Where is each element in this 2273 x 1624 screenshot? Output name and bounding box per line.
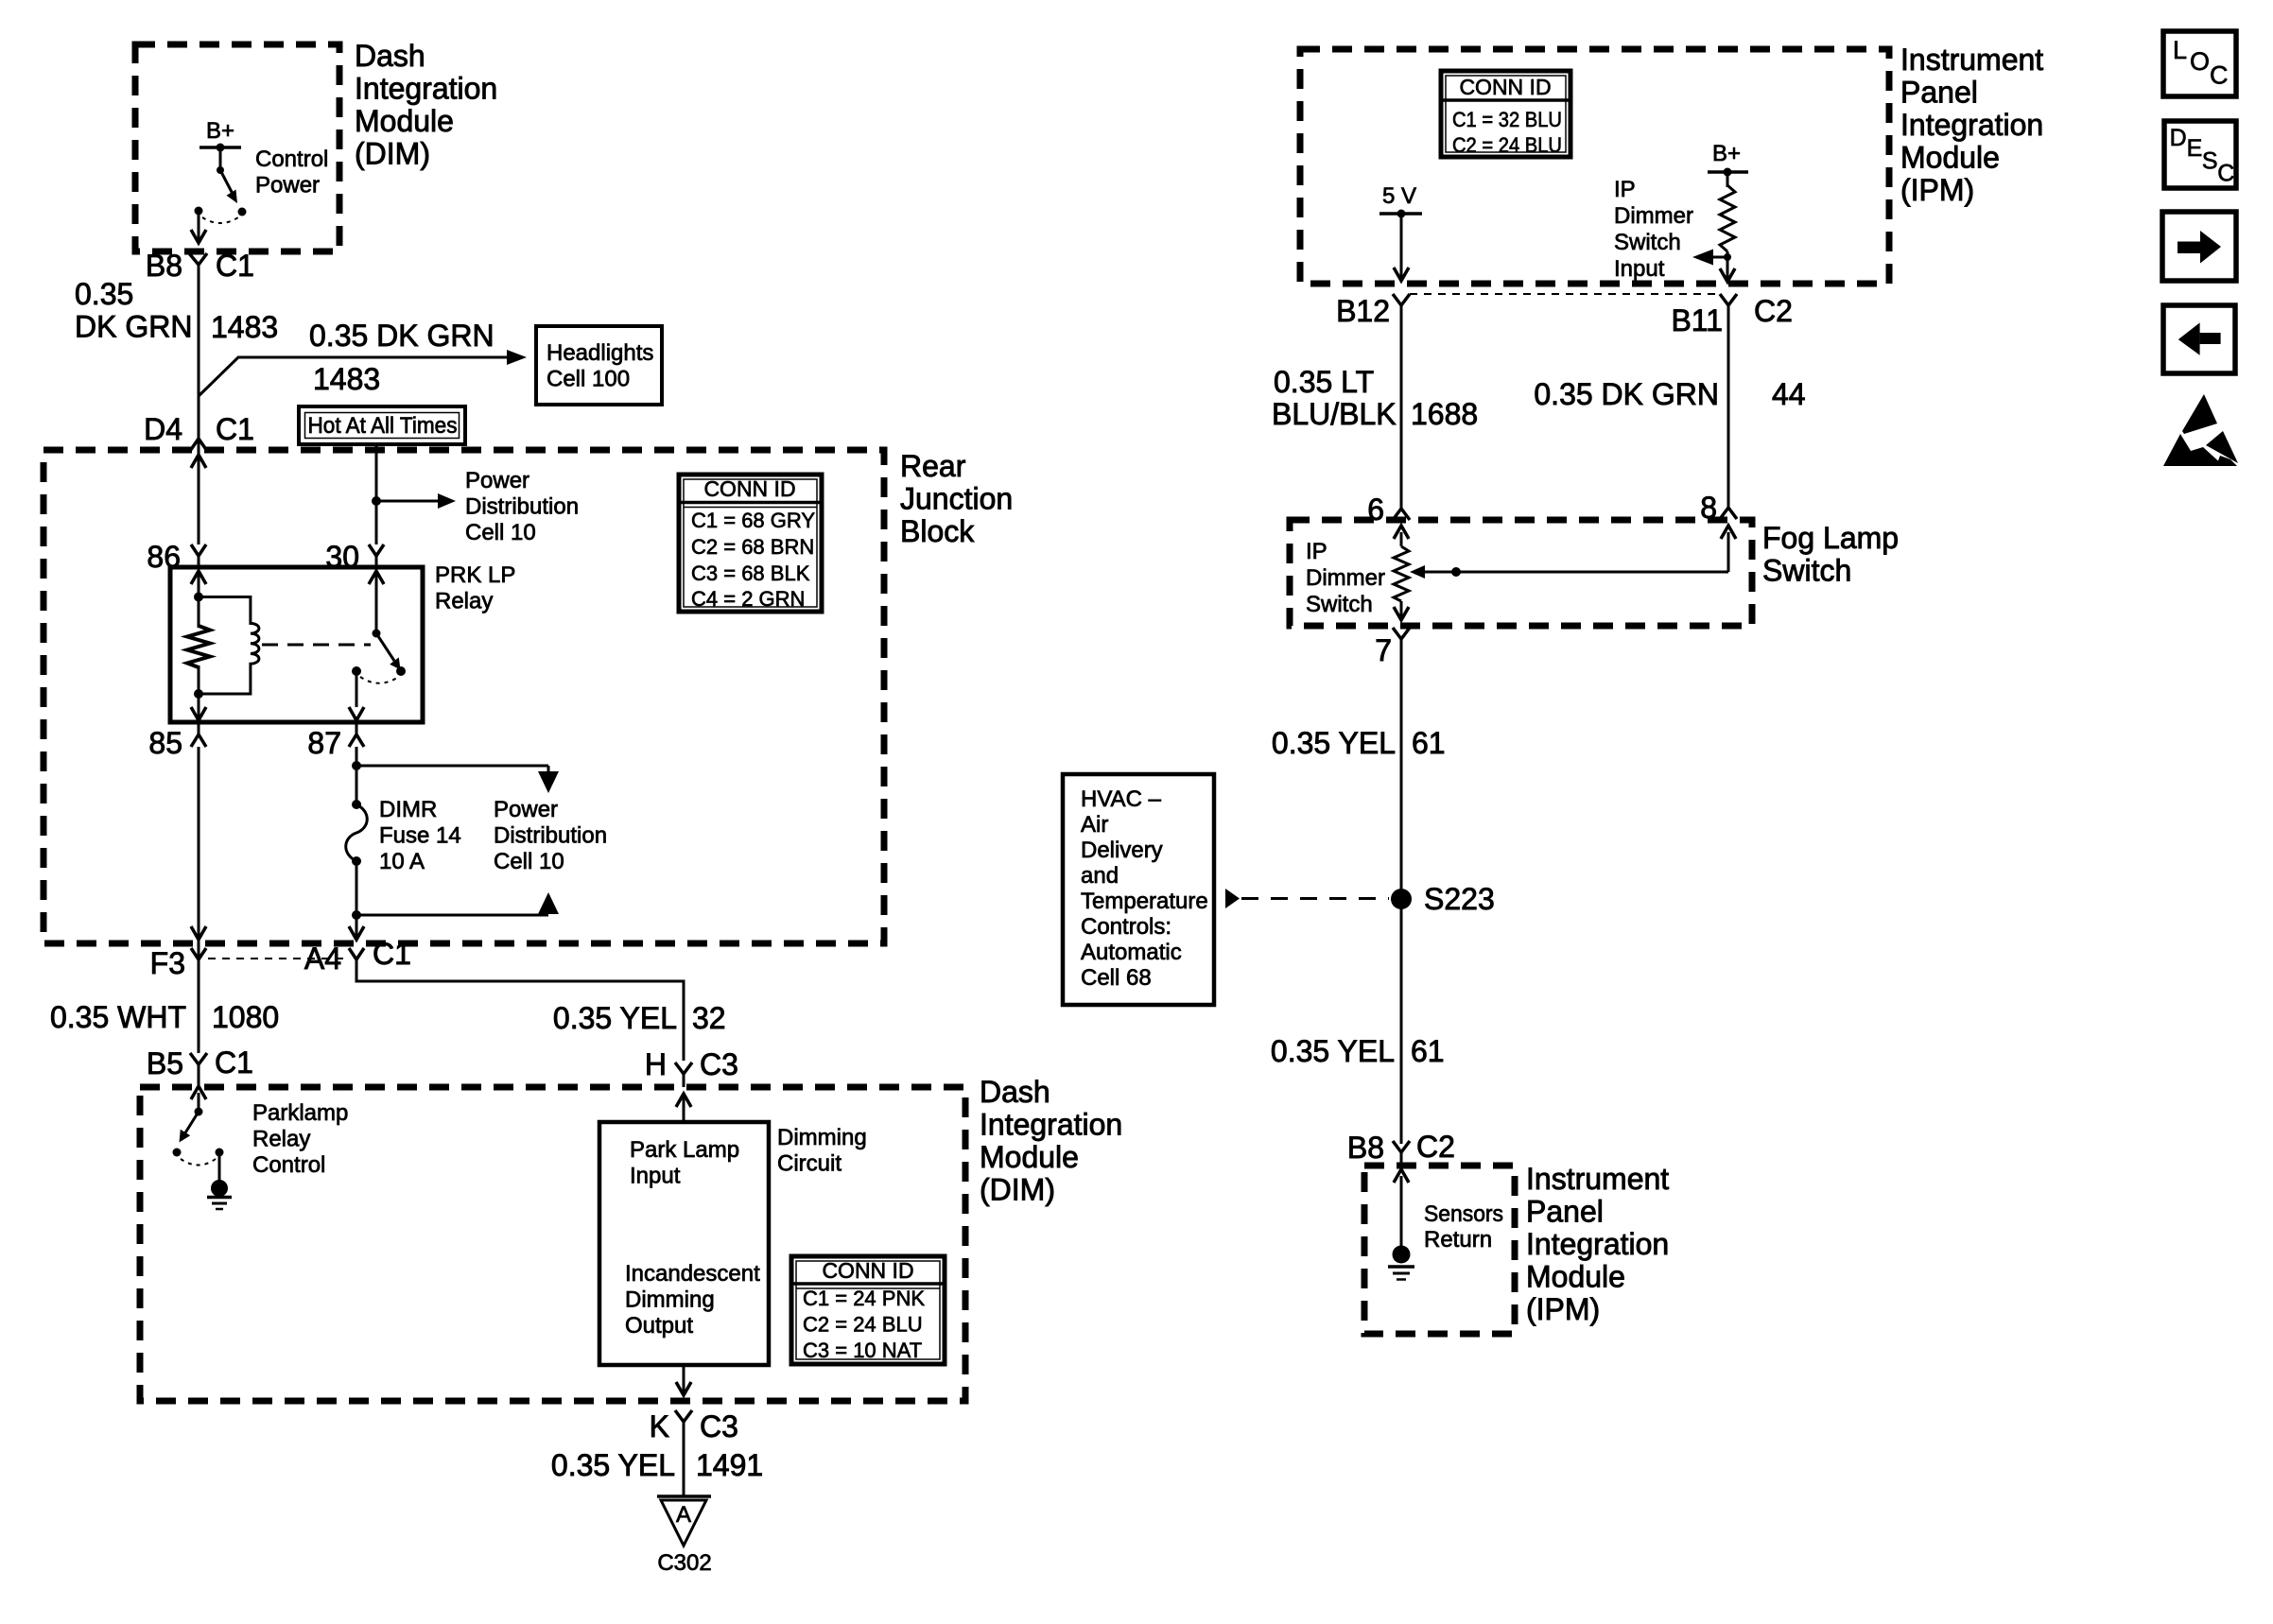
svg-text:C1 = 32 BLU: C1 = 32 BLU	[1452, 108, 1562, 131]
text: 0.35 DK GRN 44	[1534, 377, 1805, 411]
svg-text:C3 = 68 BLK: C3 = 68 BLK	[691, 561, 810, 585]
svg-text:Junction: Junction	[900, 482, 1013, 516]
svg-text:Controls:: Controls:	[1081, 914, 1171, 940]
svg-text:Module: Module	[1900, 141, 2000, 175]
text: Control Power	[255, 147, 328, 199]
svg-text:B+: B+	[206, 118, 234, 144]
svg-text:K: K	[650, 1409, 669, 1443]
connector pin 8	[1700, 491, 1737, 525]
svg-text:CONN ID: CONN ID	[1459, 75, 1551, 99]
connector pin 86	[147, 540, 206, 574]
svg-text:F3: F3	[150, 946, 185, 980]
svg-text:32: 32	[692, 1001, 726, 1035]
connector B8 / C1	[146, 249, 254, 283]
svg-text:Dash: Dash	[355, 39, 425, 73]
connector D4 / C1	[144, 412, 254, 451]
battery feed B+ with resistor (IPM)	[1708, 141, 1748, 282]
wire 32: A4 to H	[356, 959, 684, 1061]
svg-text:CONN ID: CONN ID	[703, 476, 795, 501]
svg-text:Cell 10: Cell 10	[494, 849, 564, 874]
svg-text:Power: Power	[255, 173, 320, 199]
text: 0.35 YEL 1491	[551, 1448, 763, 1482]
module box: Instrument Panel Integration Module (IPM) top	[1300, 49, 1889, 284]
svg-text:DK GRN: DK GRN	[75, 310, 192, 344]
svg-text:A: A	[676, 1502, 691, 1528]
switch: Parklamp Relay Control	[173, 1086, 224, 1166]
svg-text:BLU/BLK: BLU/BLK	[1272, 397, 1397, 431]
box: HVAC Air Delivery and Temperature Controls	[1063, 774, 1214, 1005]
dashed connector line B12 to B11	[1410, 293, 1719, 295]
svg-text:61: 61	[1412, 726, 1446, 760]
svg-text:E: E	[2187, 135, 2203, 162]
svg-text:Headlights: Headlights	[547, 340, 653, 366]
svg-text:Rear: Rear	[900, 449, 966, 483]
svg-text:Module: Module	[1526, 1260, 1625, 1294]
svg-text:Module: Module	[980, 1140, 1079, 1174]
label: Fog Lamp Switch	[1762, 521, 1899, 588]
text: IP Dimmer Switch Input	[1614, 177, 1693, 282]
svg-text:Integration: Integration	[355, 72, 497, 106]
svg-text:0.35 YEL: 0.35 YEL	[1272, 726, 1396, 760]
svg-text:C3: C3	[700, 1047, 738, 1081]
svg-text:Cell 100: Cell 100	[547, 367, 630, 392]
svg-text:Circuit: Circuit	[777, 1151, 842, 1177]
svg-text:Dimming: Dimming	[625, 1287, 715, 1313]
svg-text:0.35: 0.35	[75, 277, 133, 311]
svg-text:IP: IP	[1614, 177, 1636, 202]
svg-text:Block: Block	[900, 514, 975, 548]
svg-text:1688: 1688	[1411, 397, 1478, 431]
module box: Dash Integration Module (DIM) top	[135, 44, 339, 251]
svg-text:C: C	[2210, 61, 2229, 90]
conn table: IPM CONN ID	[1441, 71, 1570, 157]
svg-text:C1: C1	[215, 1045, 253, 1080]
svg-text:85: 85	[148, 726, 182, 760]
label: Dash Integration Module (DIM) lower	[980, 1075, 1122, 1207]
label: Instrument Panel Integration Module (IPM) lower	[1526, 1162, 1669, 1326]
svg-text:1491: 1491	[696, 1448, 763, 1482]
svg-text:Relay: Relay	[435, 589, 493, 614]
svg-text:Parklamp: Parklamp	[252, 1100, 348, 1126]
svg-text:S: S	[2202, 147, 2218, 174]
relay coil	[199, 597, 259, 695]
svg-text:Instrument: Instrument	[1526, 1162, 1669, 1196]
svg-text:10 A: 10 A	[379, 849, 425, 874]
svg-text:HVAC –: HVAC –	[1081, 786, 1162, 812]
svg-text:1080: 1080	[212, 1000, 279, 1034]
svg-text:H: H	[645, 1047, 667, 1081]
svg-text:A4: A4	[304, 942, 341, 976]
wire 1491	[683, 1422, 685, 1496]
connector B5 / C1	[147, 1045, 253, 1087]
svg-text:S223: S223	[1424, 882, 1495, 916]
wire into Park Lamp Input box	[676, 1094, 691, 1122]
wire: Hot At All Times to relay pin 30	[372, 444, 456, 544]
svg-text:1483: 1483	[211, 310, 278, 344]
label: Rear Junction Block	[900, 449, 1013, 548]
svg-text:5 V: 5 V	[1382, 183, 1416, 209]
connector B8 / C2	[1347, 1130, 1455, 1166]
svg-text:CONN ID: CONN ID	[822, 1258, 913, 1283]
wire: F3 to B5	[198, 940, 200, 1053]
svg-text:Dash: Dash	[980, 1075, 1050, 1109]
svg-text:B11: B11	[1671, 303, 1723, 337]
svg-text:C2: C2	[1416, 1130, 1455, 1164]
svg-text:Integration: Integration	[1900, 108, 2043, 142]
box: Headlights Cell 100	[536, 326, 662, 405]
svg-text:Control: Control	[255, 147, 328, 172]
svg-text:Fuse 14: Fuse 14	[379, 823, 461, 849]
svg-text:DIMR: DIMR	[379, 797, 437, 822]
svg-text:C3: C3	[700, 1409, 738, 1443]
conn table: DIM CONN ID	[791, 1256, 945, 1364]
svg-text:(DIM): (DIM)	[980, 1173, 1055, 1207]
text: DIMR Fuse 14 10 A	[379, 797, 461, 874]
svg-text:7: 7	[1375, 633, 1392, 667]
text: Power Distribution Cell 10 (upper)	[465, 468, 579, 545]
svg-text:Hot At All Times: Hot At All Times	[308, 413, 458, 439]
svg-text:44: 44	[1772, 377, 1806, 411]
svg-text:Input: Input	[630, 1164, 681, 1189]
module box: Fog Lamp Switch	[1290, 520, 1752, 626]
svg-text:D: D	[2170, 125, 2187, 151]
text: 0.35 DK GRN 1483 (vertical wire)	[75, 277, 278, 344]
svg-text:Switch: Switch	[1762, 554, 1851, 588]
text: 0.35 YEL 32	[553, 1001, 726, 1035]
svg-text:(IPM): (IPM)	[1526, 1292, 1600, 1326]
connector K / C3	[650, 1409, 738, 1443]
text: 0.35 WHT 1080	[50, 1000, 279, 1034]
text: Dimming Circuit	[777, 1125, 867, 1177]
relay PRK LP box	[170, 567, 423, 722]
text: 0.35 LT BLU/BLK 1688	[1272, 365, 1478, 431]
wiper: fog lamp switch to dimmer	[1410, 526, 1736, 579]
ground (parklamp relay control)	[207, 1152, 232, 1209]
connector B11 / C2	[1671, 294, 1792, 337]
svg-text:Distribution: Distribution	[494, 823, 607, 849]
battery feed B+ (Control Power)	[200, 118, 241, 174]
svg-text:C1 = 24 PNK: C1 = 24 PNK	[803, 1287, 925, 1310]
svg-text:0.35 DK GRN: 0.35 DK GRN	[309, 319, 495, 353]
svg-text:0.35 YEL: 0.35 YEL	[551, 1448, 675, 1482]
fuse DIMR Fuse 14 10 A	[346, 800, 368, 866]
svg-text:61: 61	[1411, 1034, 1445, 1068]
connector B12	[1336, 294, 1410, 328]
svg-text:C1: C1	[216, 412, 254, 446]
label: Dash Integration Module (DIM)	[355, 39, 497, 171]
wire: pin 85 to F3	[191, 747, 206, 940]
svg-text:Control: Control	[252, 1152, 325, 1178]
svg-text:and: and	[1081, 863, 1119, 889]
connector C302 (triangle A)	[657, 1496, 712, 1576]
text: 0.35 DK GRN 1483 (branch)	[309, 319, 495, 396]
wire: branch to headlights	[199, 350, 527, 396]
svg-text:Power: Power	[465, 468, 529, 493]
connector pin 7	[1375, 628, 1410, 667]
connector H / C3	[645, 1047, 738, 1087]
arrow: dimmer switch input wiper (left arrow)	[1692, 250, 1735, 283]
svg-text:Incandescent: Incandescent	[625, 1261, 760, 1287]
svg-text:Cell 68: Cell 68	[1081, 965, 1152, 991]
switch: Control Power blade	[195, 170, 247, 223]
icon: arrow right	[2162, 212, 2236, 281]
connector A4 / C1	[304, 937, 411, 976]
svg-text:0.35 WHT: 0.35 WHT	[50, 1000, 186, 1034]
svg-text:Integration: Integration	[1526, 1227, 1669, 1261]
svg-text:O: O	[2190, 47, 2210, 76]
svg-text:Return: Return	[1424, 1227, 1492, 1253]
text: IP Dimmer Switch (fog lamp box)	[1306, 539, 1385, 617]
svg-text:Module: Module	[355, 104, 454, 138]
svg-text:Output: Output	[625, 1313, 693, 1339]
svg-text:C3 = 10 NAT: C3 = 10 NAT	[803, 1339, 922, 1362]
box: Hot At All Times	[299, 406, 465, 444]
svg-text:C2: C2	[1754, 294, 1793, 328]
text: Power Distribution Cell 10 (lower)	[494, 797, 607, 874]
relay switch	[349, 571, 406, 720]
module box: Rear Junction Block	[43, 450, 884, 943]
svg-text:1483: 1483	[313, 362, 380, 396]
svg-text:Sensors: Sensors	[1424, 1201, 1503, 1227]
svg-text:C2 = 24 BLU: C2 = 24 BLU	[1452, 133, 1562, 157]
svg-text:Panel: Panel	[1526, 1195, 1604, 1229]
relay coil branch (left leg with resistor)	[187, 571, 210, 720]
icon: arrow left	[2163, 305, 2235, 373]
text: Sensors Return	[1424, 1201, 1503, 1253]
svg-text:Cell 10: Cell 10	[465, 520, 536, 545]
svg-text:0.35 YEL: 0.35 YEL	[1271, 1034, 1395, 1068]
svg-text:Dimmer: Dimmer	[1614, 203, 1693, 229]
text: 0.35 YEL 61 (lower)	[1271, 1034, 1445, 1068]
svg-text:Distribution: Distribution	[465, 494, 579, 520]
text: Parklamp Relay Control	[252, 1100, 348, 1178]
svg-text:87: 87	[307, 726, 341, 760]
svg-text:Instrument: Instrument	[1900, 43, 2043, 77]
wire: box output to K	[676, 1365, 691, 1395]
svg-text:C2 = 24 BLU: C2 = 24 BLU	[803, 1313, 923, 1337]
svg-text:PRK LP: PRK LP	[435, 562, 515, 588]
connector pin 85	[148, 722, 206, 760]
ground: Sensors Return	[1388, 1169, 1414, 1280]
wire: D4 to relay pin 86, arrow at RJB edge	[191, 455, 206, 468]
svg-text:Park Lamp: Park Lamp	[630, 1137, 739, 1163]
potentiometer: IP dimmer	[1394, 526, 1409, 620]
icon: LOC	[2163, 31, 2236, 96]
connector pin 87	[307, 722, 364, 760]
svg-text:C1: C1	[373, 937, 411, 971]
svg-text:IP: IP	[1306, 539, 1327, 564]
icon: ESD warning symbol	[2163, 394, 2238, 466]
svg-text:Input: Input	[1614, 256, 1665, 282]
svg-text:C1 = 68 GRY: C1 = 68 GRY	[691, 509, 815, 532]
svg-text:(IPM): (IPM)	[1900, 173, 1974, 207]
svg-text:Integration: Integration	[980, 1108, 1122, 1142]
svg-text:L: L	[2173, 36, 2187, 64]
svg-text:B8: B8	[146, 249, 182, 283]
svg-text:0.35 YEL: 0.35 YEL	[553, 1001, 677, 1035]
svg-text:Relay: Relay	[252, 1127, 310, 1152]
5V reference (IPM)	[1379, 183, 1422, 281]
wire 44: B11 to pin 8	[1727, 323, 1730, 508]
svg-text:Switch: Switch	[1306, 592, 1373, 617]
svg-text:Panel: Panel	[1900, 76, 1978, 110]
svg-text:Switch: Switch	[1614, 230, 1681, 255]
conn table: Rear Junction Block CONN ID	[679, 475, 822, 612]
svg-text:0.35 LT: 0.35 LT	[1274, 365, 1374, 399]
module box: Instrument Panel Integration Module (IPM) lower	[1364, 1166, 1515, 1334]
wire 61: pin 7 to B8	[1400, 639, 1403, 1144]
wire below fuse with branch (up arrow)	[349, 861, 559, 940]
dashed reference line HVAC to S223	[1225, 889, 1389, 908]
svg-text:B5: B5	[147, 1046, 183, 1080]
icon: DESC	[2164, 121, 2236, 188]
box: Park Lamp Input / Incandescent Dimming Output	[599, 1122, 769, 1365]
text: 0.35 YEL 61 (upper)	[1272, 726, 1446, 760]
wire: pin 87 down with branch to Power Distribution (down arrow)	[352, 747, 559, 804]
svg-text:Dimmer: Dimmer	[1306, 565, 1385, 591]
label: Instrument Panel Integration Module (IPM) top	[1900, 43, 2043, 207]
svg-text:C2 = 68 BRN: C2 = 68 BRN	[691, 535, 814, 559]
svg-text:Fog Lamp: Fog Lamp	[1762, 521, 1899, 555]
label: PRK LP Relay	[435, 562, 515, 614]
svg-text:(DIM): (DIM)	[355, 137, 430, 171]
wire: switch output to DIM edge	[191, 211, 206, 243]
svg-text:B8: B8	[1347, 1131, 1384, 1165]
svg-text:Air: Air	[1081, 812, 1108, 838]
svg-text:Delivery: Delivery	[1081, 838, 1163, 863]
svg-text:Temperature: Temperature	[1081, 889, 1208, 914]
svg-text:C302: C302	[657, 1550, 711, 1576]
svg-text:D4: D4	[144, 412, 182, 446]
svg-text:Power: Power	[494, 797, 558, 822]
wire 1688: B12 to pin 6	[1400, 323, 1403, 509]
splice S223	[1391, 882, 1495, 916]
svg-text:C4 = 2 GRN: C4 = 2 GRN	[691, 587, 805, 611]
connector F3	[150, 946, 206, 980]
svg-text:B+: B+	[1712, 141, 1741, 166]
connector pin 6	[1367, 492, 1410, 527]
svg-text:Dimming: Dimming	[777, 1125, 867, 1150]
relay actuation dashed link	[262, 644, 371, 647]
svg-text:B12: B12	[1336, 294, 1390, 328]
svg-text:0.35 DK GRN: 0.35 DK GRN	[1534, 377, 1719, 411]
module box: Dash Integration Module (DIM) lower	[140, 1087, 965, 1401]
svg-text:Automatic: Automatic	[1081, 940, 1182, 965]
svg-text:C: C	[2217, 160, 2234, 186]
wire 1483: B8 to D4	[198, 265, 200, 544]
svg-text:C1: C1	[216, 249, 254, 283]
dashed connector line F3 to A4	[208, 958, 346, 959]
connector pin 30	[325, 540, 384, 574]
